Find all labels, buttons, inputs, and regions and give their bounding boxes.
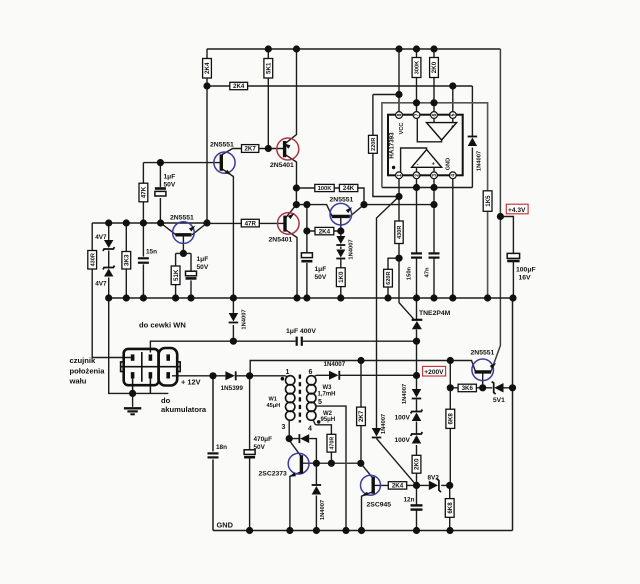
svg-text:2N5401: 2N5401 [270, 162, 294, 169]
svg-text:2K4: 2K4 [392, 483, 404, 490]
svg-text:300K: 300K [415, 61, 421, 74]
svg-text:47R: 47R [245, 220, 257, 227]
svg-text:2K7: 2K7 [244, 146, 256, 153]
svg-text:GND: GND [445, 158, 451, 170]
svg-text:1N4007: 1N4007 [324, 361, 346, 368]
svg-text:1K5: 1K5 [485, 195, 492, 207]
svg-text:50V: 50V [254, 444, 266, 451]
svg-text:6: 6 [309, 369, 313, 376]
svg-text:1N4007: 1N4007 [320, 500, 326, 520]
svg-text:2K7: 2K7 [358, 410, 365, 422]
svg-text:50V: 50V [197, 264, 209, 271]
svg-text:2N5551: 2N5551 [330, 197, 354, 204]
svg-text:5V1: 5V1 [493, 397, 505, 404]
svg-text:2K0: 2K0 [414, 458, 421, 470]
svg-text:1μF: 1μF [164, 174, 176, 181]
svg-text:2SC945: 2SC945 [367, 502, 392, 509]
svg-text:2SC2373: 2SC2373 [259, 471, 288, 478]
svg-text:3K3: 3K3 [124, 254, 131, 266]
svg-text:1: 1 [397, 174, 403, 177]
svg-text:2: 2 [414, 174, 420, 177]
svg-text:8: 8 [397, 113, 403, 116]
svg-text:do: do [161, 396, 171, 405]
svg-text:95μH: 95μH [321, 417, 336, 423]
svg-text:1N4007: 1N4007 [477, 151, 483, 171]
svg-text:3: 3 [432, 174, 438, 177]
svg-text:150n: 150n [407, 266, 413, 280]
svg-text:6: 6 [432, 113, 438, 116]
svg-text:2N5551: 2N5551 [210, 142, 234, 149]
svg-text:HA17393: HA17393 [389, 132, 396, 159]
svg-text:2N5551: 2N5551 [471, 350, 495, 357]
svg-text:47K: 47K [141, 186, 148, 198]
svg-text:+: + [451, 125, 454, 131]
svg-text:czujnik: czujnik [70, 356, 97, 365]
svg-text:47n: 47n [425, 267, 431, 277]
svg-text:1: 1 [286, 369, 290, 376]
svg-text:5: 5 [318, 399, 322, 406]
svg-text:1K0: 1K0 [338, 271, 345, 283]
svg-text:4V7: 4V7 [95, 281, 107, 288]
svg-text:470μF: 470μF [254, 436, 273, 443]
svg-text:do cewki WN: do cewki WN [139, 321, 186, 330]
svg-text:-: - [417, 161, 419, 167]
svg-text:4V7: 4V7 [95, 234, 107, 241]
svg-text:2K4: 2K4 [233, 83, 245, 90]
svg-text:1N4007: 1N4007 [349, 239, 355, 259]
svg-text:wału: wału [69, 377, 87, 386]
svg-text:6K8: 6K8 [448, 413, 455, 425]
svg-text:100K: 100K [318, 186, 333, 192]
svg-text:50V: 50V [164, 182, 176, 189]
svg-text:6K8: 6K8 [447, 502, 454, 514]
svg-text:24K: 24K [343, 185, 355, 192]
svg-text:1N5399: 1N5399 [221, 385, 244, 392]
svg-text:51K: 51K [173, 269, 180, 281]
svg-text:50V: 50V [315, 274, 327, 281]
svg-text:16V: 16V [519, 275, 532, 282]
svg-text:7: 7 [414, 113, 420, 116]
svg-text:5K1: 5K1 [266, 62, 273, 74]
svg-text:+4.3V: +4.3V [508, 207, 526, 214]
svg-text:+ 12V: + 12V [181, 377, 201, 386]
svg-text:W1: W1 [269, 397, 277, 403]
svg-text:2K4: 2K4 [204, 62, 211, 74]
svg-text:+200V: +200V [424, 369, 444, 376]
svg-text:430R: 430R [90, 253, 96, 266]
svg-text:2N5401: 2N5401 [269, 237, 293, 244]
svg-text:100V: 100V [395, 437, 411, 444]
svg-text:2K0: 2K0 [431, 61, 438, 73]
svg-text:1N4007: 1N4007 [402, 384, 408, 404]
svg-text:akumulatora: akumulatora [161, 405, 207, 414]
svg-text:2N5551: 2N5551 [170, 215, 194, 222]
svg-text:W3: W3 [323, 385, 333, 391]
svg-text:4: 4 [308, 426, 312, 433]
svg-text:5: 5 [451, 113, 457, 116]
svg-text:1μF: 1μF [315, 266, 327, 273]
svg-text:45μH: 45μH [267, 403, 281, 409]
svg-text:1N4007: 1N4007 [242, 309, 248, 329]
svg-text:3K6: 3K6 [462, 385, 474, 392]
svg-text:1,7mH: 1,7mH [318, 392, 336, 398]
svg-text:+: + [432, 162, 435, 168]
svg-text:220R: 220R [371, 138, 377, 151]
svg-text:-: - [430, 124, 432, 130]
svg-text:18n: 18n [216, 444, 227, 451]
svg-text:2K4: 2K4 [319, 228, 331, 235]
svg-text:430R: 430R [397, 226, 403, 239]
svg-text:12n: 12n [404, 497, 415, 504]
svg-text:TNE2P4M: TNE2P4M [419, 310, 451, 317]
svg-text:1μF 400V: 1μF 400V [286, 328, 316, 335]
svg-text:położenia: położenia [70, 366, 106, 375]
svg-text:100V: 100V [395, 415, 411, 422]
svg-text:VCC: VCC [399, 123, 405, 135]
svg-text:620R: 620R [386, 271, 392, 284]
svg-text:100μF: 100μF [516, 267, 536, 274]
svg-text:8V2: 8V2 [428, 475, 440, 482]
svg-text:3: 3 [282, 424, 286, 431]
svg-text:GND: GND [217, 521, 234, 530]
svg-text:15n: 15n [146, 249, 157, 256]
svg-text:470R: 470R [330, 437, 336, 450]
svg-text:1μF: 1μF [197, 256, 209, 263]
svg-text:4: 4 [451, 174, 457, 177]
svg-text:1N4007: 1N4007 [381, 414, 387, 434]
